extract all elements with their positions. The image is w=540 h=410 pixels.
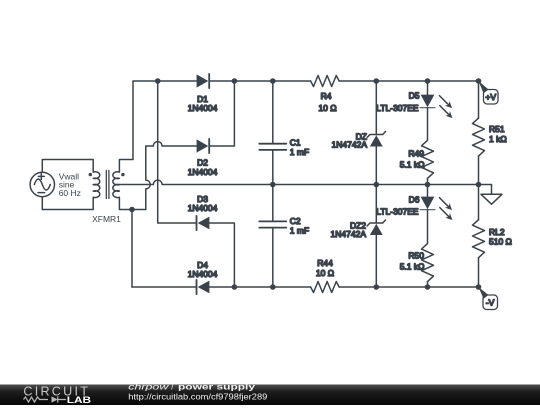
label Vwall sine 60 Hz — [59, 172, 81, 198]
svg-text:1 mF: 1 mF — [290, 226, 309, 236]
LED D5 — [376, 81, 452, 140]
svg-text:R49: R49 — [408, 149, 424, 159]
svg-text:http://circuitlab.com/cf9798fj: http://circuitlab.com/cf9798fjer289 — [128, 392, 268, 401]
junction mid rail / ground — [476, 182, 482, 188]
wire D2 cathode up to top rail — [209, 81, 234, 146]
svg-text:1N4004: 1N4004 — [188, 167, 218, 177]
junction bottom rail / D3 anode — [232, 284, 238, 290]
junction bottom rail / DZ2 — [374, 284, 380, 290]
resistor RL2 — [473, 185, 512, 288]
svg-text:LTL-307EE: LTL-307EE — [376, 206, 419, 216]
svg-text:R44: R44 — [317, 258, 333, 268]
diode D1 — [188, 74, 218, 113]
svg-text:D5: D5 — [409, 91, 420, 101]
svg-text:5.1 kΩ: 5.1 kΩ — [400, 261, 425, 271]
svg-text:+V: +V — [485, 92, 496, 102]
svg-text:60 Hz: 60 Hz — [59, 188, 81, 198]
diode D4 — [188, 260, 218, 294]
junction top rail / C1 — [270, 78, 276, 84]
svg-text:D6: D6 — [409, 195, 420, 205]
svg-text:-V: -V — [486, 298, 495, 308]
junction bottom rail / R50 — [425, 284, 431, 290]
voltage source V1 — [30, 172, 54, 196]
wire top rail to D3 cathode — [158, 81, 197, 223]
junction bottom rail / C2 — [270, 284, 276, 290]
svg-text:5.1 kΩ: 5.1 kΩ — [400, 159, 425, 169]
svg-text:1N4004: 1N4004 — [188, 269, 218, 279]
svg-text:1 kΩ: 1 kΩ — [489, 134, 507, 144]
terminal -V — [479, 287, 498, 310]
wire secondary bottom — [119, 197, 145, 209]
resistor R50 — [400, 244, 434, 287]
logo CIRCUIT LAB — [23, 385, 91, 405]
wire bottom rail left — [132, 286, 197, 288]
svg-text:R50: R50 — [408, 250, 424, 260]
ground — [479, 185, 503, 205]
zener diode DZ — [332, 81, 386, 185]
svg-text:XFMR1: XFMR1 — [92, 214, 121, 224]
svg-text:R51: R51 — [489, 124, 505, 134]
transformer XFMR1 — [89, 171, 125, 199]
junction mid rail / C — [270, 182, 276, 188]
resistor R4 — [311, 76, 340, 114]
junction mid rail / R49-D6 — [425, 182, 431, 188]
svg-text:1 mF: 1 mF — [290, 147, 309, 157]
svg-text:LTL-307EE: LTL-307EE — [376, 103, 419, 113]
svg-text:power supply: power supply — [178, 382, 256, 391]
wire D2 line with hop, to D2 anode — [153, 142, 196, 146]
capacitor C1 — [259, 81, 309, 185]
wire secondary bottom to bottom rail — [131, 210, 133, 288]
capacitor C2 — [259, 185, 309, 288]
junction top rail / DZ — [374, 78, 380, 84]
diode D2 — [188, 139, 218, 177]
resistor R51 — [473, 81, 507, 185]
svg-text:R4: R4 — [321, 91, 332, 101]
zener diode DZ2 — [331, 185, 386, 288]
svg-text:1N4742A: 1N4742A — [332, 140, 368, 150]
junction top rail / D2 cathode — [232, 78, 238, 84]
wire source top to primary — [42, 160, 93, 173]
diode D3 — [188, 194, 218, 230]
wire secondary top to top rail — [119, 81, 133, 172]
svg-text:chrpow: chrpow — [128, 382, 170, 391]
svg-text:10 Ω: 10 Ω — [318, 103, 336, 113]
svg-text:1N4742A: 1N4742A — [331, 229, 367, 239]
terminal +V — [479, 81, 499, 104]
wire secondary center tap (mid rail) with hop — [119, 180, 478, 184]
svg-text:1N4004: 1N4004 — [188, 203, 218, 213]
footer text — [128, 382, 268, 401]
footer bar — [0, 385, 540, 406]
svg-text:1N4004: 1N4004 — [188, 103, 218, 113]
resistor R49 — [400, 140, 434, 184]
junction top rail / D3 branch — [155, 78, 161, 84]
svg-text:510 Ω: 510 Ω — [489, 237, 512, 247]
svg-text:LAB: LAB — [67, 395, 92, 405]
resistor R44 — [311, 258, 340, 293]
junction node -V — [476, 284, 482, 290]
svg-text:10 Ω: 10 Ω — [316, 268, 334, 278]
wire top rail left — [133, 80, 197, 82]
junction mid rail / zeners — [374, 182, 380, 188]
wire bottom rail right — [209, 286, 478, 288]
wire source bottom to primary — [42, 197, 93, 210]
wire D3 anode down to bottom rail — [209, 223, 234, 287]
wire vertical to D2 anode with hop over mid rail — [146, 146, 154, 210]
junction top rail / D5 — [425, 78, 431, 84]
LED D6 — [376, 185, 452, 244]
junction node +V — [476, 78, 482, 84]
svg-text:RL2: RL2 — [489, 227, 505, 237]
junction secondary bottom — [129, 207, 135, 213]
wire top rail right — [209, 80, 478, 82]
